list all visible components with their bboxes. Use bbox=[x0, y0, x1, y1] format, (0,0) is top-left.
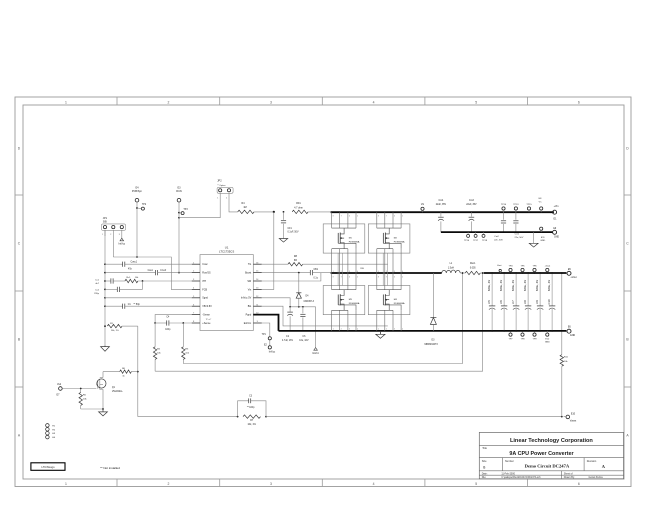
svg-text:5: 5 bbox=[193, 296, 194, 298]
svg-text:11-Feb-2000: 11-Feb-2000 bbox=[501, 473, 515, 476]
svg-text:+Vout: +Vout bbox=[544, 265, 550, 268]
svg-text:4: 4 bbox=[193, 288, 194, 290]
svg-text:15: 15 bbox=[256, 271, 258, 273]
svg-text:820u, 4V: 820u, 4V bbox=[499, 280, 503, 291]
capacitor Cin4 22uF 35V bbox=[436, 200, 447, 232]
svg-text:16: 16 bbox=[256, 262, 258, 264]
svg-text:6R: 6R bbox=[294, 259, 297, 262]
svg-text:C6: C6 bbox=[499, 300, 503, 304]
terminal E10 Vosns bbox=[564, 413, 577, 423]
wire sgnd bus bbox=[104, 230, 106, 345]
resistor RF1 4.7 ohm bbox=[292, 202, 308, 213]
svg-text:9A CPU Power Converter: 9A CPU Power Converter bbox=[509, 451, 574, 457]
test point TP4 output bbox=[508, 266, 513, 274]
svg-text:RF1: RF1 bbox=[296, 202, 301, 205]
svg-text:Revision: Revision bbox=[587, 460, 597, 463]
svg-text:TP1: TP1 bbox=[262, 334, 267, 336]
resistor R2 10k bbox=[153, 323, 161, 371]
svg-text:Cosc1: Cosc1 bbox=[131, 262, 138, 264]
resistor Rsn1 0.005 bbox=[465, 263, 480, 275]
svg-text:1: 1 bbox=[378, 271, 379, 273]
ground sgnd bus bbox=[101, 346, 110, 352]
wire JP2 pin2 to R4 bbox=[229, 193, 238, 212]
svg-text:7: 7 bbox=[386, 216, 387, 218]
test point TP1 bbox=[262, 334, 272, 340]
wire Vout rail thick bbox=[484, 272, 567, 274]
resistor R1 10k 1% bbox=[107, 323, 138, 332]
svg-text:FCB: FCB bbox=[202, 288, 207, 291]
terminal E7 Vsd bbox=[57, 383, 63, 397]
svg-text:IntVcc: IntVcc bbox=[312, 352, 319, 355]
svg-text:22n, 50V: 22n, 50V bbox=[515, 237, 524, 239]
svg-text:** 100p: ** 100p bbox=[247, 407, 255, 409]
test point TP2 bbox=[137, 204, 147, 210]
wire Vin rail thick bbox=[331, 211, 554, 213]
svg-text:Cin2: Cin2 bbox=[494, 236, 499, 238]
svg-text:C5: C5 bbox=[487, 300, 491, 304]
ground Q1 bbox=[99, 409, 108, 416]
ground PGND rail bbox=[376, 331, 385, 338]
note: not installed bbox=[100, 466, 120, 470]
svg-text:Vosns: Vosns bbox=[570, 419, 577, 422]
svg-text:22uF, 35V: 22uF, 35V bbox=[436, 204, 447, 206]
svg-text:IntVcc: IntVcc bbox=[118, 243, 125, 246]
svg-text:FDS6680A: FDS6680A bbox=[349, 241, 360, 244]
resistor R8 6R TG gate bbox=[262, 255, 388, 266]
wire JP2 pin1 to RUN net bbox=[179, 193, 220, 217]
capacitor C8 820u 4V bbox=[523, 272, 531, 332]
capacitor C3 100p bbox=[238, 395, 266, 416]
svg-text:LTC/NLogo: LTC/NLogo bbox=[41, 465, 55, 469]
transistor M2 FDS6680A bbox=[368, 212, 410, 273]
svg-text:IntVcc 5V: IntVcc 5V bbox=[241, 297, 252, 300]
svg-text:Rsn1: Rsn1 bbox=[470, 263, 476, 265]
wire JP1 pin2 to FCB net bbox=[112, 230, 114, 257]
svg-text:TP at T: TP at T bbox=[206, 318, 213, 321]
capacitor CB1 0.1u boost bbox=[262, 269, 331, 279]
labels TP16 TP17 TP18 bbox=[464, 240, 488, 242]
svg-text:Goran Perica: Goran Perica bbox=[589, 476, 604, 479]
capacitor C10 820u 4V bbox=[547, 272, 555, 332]
capacitor C4 100p bbox=[155, 316, 192, 331]
svg-text:TP17: TP17 bbox=[473, 240, 479, 242]
svg-text:0.005: 0.005 bbox=[470, 267, 476, 269]
wire input gnd rail thick bbox=[441, 231, 553, 233]
test point TP9 gnd bbox=[532, 330, 537, 341]
svg-text:3: 3 bbox=[193, 279, 194, 281]
wire feedback line bbox=[138, 416, 563, 418]
terminal E1 +Vin bbox=[553, 205, 559, 220]
svg-text:220p: 220p bbox=[94, 293, 100, 295]
svg-text:6: 6 bbox=[193, 304, 194, 306]
inductor L1 1.5uH bbox=[442, 263, 461, 273]
svg-text:Cin4: Cin4 bbox=[439, 200, 444, 202]
svg-text:TP16: TP16 bbox=[464, 240, 470, 242]
resistor R7 10k 1% bbox=[243, 415, 261, 426]
wire Rsn1 to Vout rail bbox=[480, 272, 483, 274]
svg-text:6: 6 bbox=[578, 100, 580, 104]
wire E3 down to Run/SS bbox=[178, 202, 180, 273]
svg-text:S/B: S/B bbox=[103, 220, 107, 223]
svg-text:2: 2 bbox=[168, 482, 170, 486]
capacitor Cc1 4n7 bbox=[95, 278, 125, 285]
svg-text:RUN: RUN bbox=[176, 190, 182, 193]
svg-text:3: 3 bbox=[270, 100, 272, 104]
svg-text:5: 5 bbox=[475, 482, 477, 486]
svg-text:B: B bbox=[483, 465, 485, 469]
svg-text:JP2: JP2 bbox=[217, 179, 222, 182]
svg-text:12: 12 bbox=[256, 296, 258, 298]
svg-text:Sheet of: Sheet of bbox=[564, 473, 573, 476]
svg-text:4.7 ohm: 4.7 ohm bbox=[294, 206, 303, 209]
terminal E12 GND bbox=[545, 331, 550, 344]
capacitor C6 820u 4V bbox=[499, 272, 507, 332]
svg-text:GND: GND bbox=[540, 240, 545, 242]
border frame bbox=[15, 97, 631, 487]
svg-text:8: 8 bbox=[378, 276, 379, 278]
svg-text:Cosc: Cosc bbox=[202, 263, 208, 266]
capacitor Cosc1 47p bbox=[105, 262, 192, 271]
terminal E5 +Vout bbox=[566, 268, 577, 279]
resistor R11 10k bbox=[560, 274, 569, 417]
svg-text:MBRS340T3: MBRS340T3 bbox=[425, 344, 439, 346]
svg-text:IntVcc: IntVcc bbox=[269, 351, 276, 354]
svg-text:** Not installed: ** Not installed bbox=[100, 466, 120, 470]
svg-text:1: 1 bbox=[217, 198, 218, 200]
svg-text:820u, 4V: 820u, 4V bbox=[535, 280, 539, 291]
wire IntVcc node bbox=[262, 298, 316, 308]
wire +Sense row pin7 bbox=[154, 315, 191, 324]
svg-text:6: 6 bbox=[578, 482, 580, 486]
node SW label bbox=[360, 268, 364, 270]
svg-text:+Vout: +Vout bbox=[570, 276, 577, 279]
svg-text:Drawn By:: Drawn By: bbox=[564, 476, 575, 479]
svg-text:10k, 1%: 10k, 1% bbox=[111, 330, 119, 332]
wire RF1 to Vin rail bbox=[308, 211, 331, 213]
terminal E3 RUN bbox=[176, 186, 182, 202]
wire ExtVcc to test points bbox=[262, 323, 270, 346]
wire Pgnd thick bbox=[253, 315, 278, 331]
svg-text:2: 2 bbox=[193, 271, 194, 273]
test point TP7 gnd bbox=[508, 330, 513, 341]
svg-text:CB1: CB1 bbox=[314, 269, 319, 271]
svg-text:FDS6680A: FDS6680A bbox=[394, 302, 405, 305]
svg-text:File:: File: bbox=[482, 476, 487, 479]
svg-text:9: 9 bbox=[257, 321, 258, 323]
svg-text:1: 1 bbox=[65, 482, 67, 486]
svg-text:GND: GND bbox=[545, 342, 550, 344]
svg-text:C:\padspwr\files\DC247A\DC247A: C:\padspwr\files\DC247A\DC247A.sch bbox=[501, 476, 541, 479]
capacitor Cin3 22uF 35V bbox=[466, 200, 477, 232]
svg-text:Vout: Vout bbox=[497, 264, 502, 267]
svg-text:CMDSH-3: CMDSH-3 bbox=[304, 301, 315, 303]
capacitor C1 50p bbox=[105, 304, 192, 309]
svg-text:11: 11 bbox=[256, 304, 258, 306]
svg-text:1M: 1M bbox=[243, 206, 246, 209]
svg-text:820u, 4V: 820u, 4V bbox=[511, 280, 515, 291]
svg-text:TP18: TP18 bbox=[482, 240, 488, 242]
svg-text:0.1u: 0.1u bbox=[314, 277, 319, 279]
svg-text:BG: BG bbox=[248, 305, 252, 308]
transistor Q1 VN2222 bbox=[96, 372, 123, 393]
svg-text:4: 4 bbox=[373, 100, 375, 104]
svg-text:820u, 4V: 820u, 4V bbox=[547, 280, 551, 291]
resistor R5 10k bbox=[79, 389, 87, 410]
ground CF1 bbox=[279, 239, 287, 243]
svg-text:8: 8 bbox=[193, 321, 194, 323]
wire E4 down bbox=[136, 202, 138, 258]
svg-text:10u, 16V: 10u, 16V bbox=[299, 340, 309, 342]
capacitor CF1 0.1uF 50V bbox=[281, 212, 299, 239]
wire Vin pin13 riser bbox=[262, 212, 274, 290]
svg-text:Css1: Css1 bbox=[148, 270, 154, 272]
svg-text:FDS6680A: FDS6680A bbox=[349, 302, 360, 305]
test point TP5 output bbox=[520, 266, 525, 274]
svg-text:10k, 1%: 10k, 1% bbox=[248, 424, 256, 426]
wire Sgnd row bbox=[105, 297, 192, 299]
svg-text:+Vin: +Vin bbox=[554, 205, 559, 208]
capacitor C9 820u 4V bbox=[535, 272, 543, 332]
capacitor C2 4.7uF 16V bbox=[282, 307, 293, 342]
terminal E11 GND bbox=[540, 227, 546, 242]
test point TP17 bbox=[474, 232, 477, 237]
svg-text:VB=0.8V: VB=0.8V bbox=[202, 305, 212, 308]
test point TP18 bbox=[482, 232, 485, 237]
svg-text:820u, 4V: 820u, 4V bbox=[523, 280, 527, 291]
terminal E4 PCB/Syn bbox=[132, 186, 143, 202]
svg-text:ITH: ITH bbox=[202, 280, 206, 283]
svg-text:5: 5 bbox=[475, 100, 477, 104]
svg-text:4: 4 bbox=[402, 271, 403, 273]
wire feedback vertical bbox=[137, 326, 139, 417]
svg-text:-Sense: -Sense bbox=[202, 314, 210, 317]
mounting holes H1-H4 bbox=[46, 424, 56, 439]
svg-text:1: 1 bbox=[102, 234, 103, 236]
jumper JP1 S/B bbox=[101, 217, 125, 236]
svg-text:4.7uF, 16V: 4.7uF, 16V bbox=[282, 340, 293, 342]
power flag IntVcc at JP1 pin3 bbox=[118, 230, 125, 245]
terminal E6 GND output bbox=[566, 326, 575, 338]
svg-text:1.5uH: 1.5uH bbox=[448, 267, 454, 269]
test point Vout small bbox=[497, 264, 502, 273]
svg-text:Demo Circuit DC247A: Demo Circuit DC247A bbox=[525, 464, 570, 469]
wire L1 to Rsn1 bbox=[460, 272, 465, 274]
capacitor C5 820u 4V bbox=[487, 272, 495, 332]
svg-text:TP15: TP15 bbox=[526, 204, 532, 206]
svg-text:2: 2 bbox=[386, 329, 387, 331]
transistor M3 FDS6680A bbox=[323, 273, 365, 331]
svg-text:Linear Technology Corporation: Linear Technology Corporation bbox=[510, 438, 593, 444]
svg-text:C9: C9 bbox=[535, 300, 539, 304]
svg-text:2: 2 bbox=[168, 100, 170, 104]
LTC logo box bbox=[31, 463, 65, 471]
svg-text:Cin3: Cin3 bbox=[469, 200, 474, 202]
terminal E2 IntVcc bbox=[264, 345, 276, 354]
svg-text:22n, 50V: 22n, 50V bbox=[494, 240, 503, 242]
test point TP16 bbox=[467, 232, 470, 237]
capacitor C6 10u 16V bbox=[299, 307, 309, 342]
op-amp controller U1 LTC1735CS bbox=[192, 246, 262, 331]
svg-text:Boost: Boost bbox=[245, 272, 251, 275]
resistor R3 10k bbox=[182, 323, 190, 364]
svg-text:** 50p: ** 50p bbox=[134, 304, 141, 306]
svg-text:VN2222LL: VN2222LL bbox=[112, 391, 124, 393]
svg-text:Cin1: Cin1 bbox=[515, 234, 520, 236]
svg-text:CF1: CF1 bbox=[288, 228, 293, 230]
svg-text:3: 3 bbox=[119, 234, 120, 236]
test point Vin bbox=[421, 204, 425, 212]
wire FCB net vertical bbox=[113, 257, 191, 289]
jumper JP2 bbox=[217, 179, 233, 199]
svg-text:7: 7 bbox=[386, 276, 387, 278]
svg-text:ExtVcc: ExtVcc bbox=[244, 322, 252, 325]
svg-text:4: 4 bbox=[373, 482, 375, 486]
test point TP6 output bbox=[532, 266, 537, 274]
svg-text:+Sense: +Sense bbox=[202, 322, 211, 325]
svg-text:Sgnd: Sgnd bbox=[202, 297, 208, 300]
svg-text:GND: GND bbox=[554, 237, 559, 239]
svg-text:820u, 4V: 820u, 4V bbox=[487, 280, 491, 291]
test point TP13 bbox=[513, 204, 519, 212]
terminal E8 bbox=[539, 198, 543, 212]
wire PGND rail thick bbox=[279, 330, 567, 332]
wire JP1 pin1 to bus bbox=[104, 230, 106, 236]
svg-text:3: 3 bbox=[270, 482, 272, 486]
test point TP14 bbox=[501, 204, 507, 212]
svg-text:Pgnd: Pgnd bbox=[246, 314, 252, 317]
svg-text:22uF, 35V: 22uF, 35V bbox=[466, 204, 477, 206]
svg-text:5: 5 bbox=[402, 276, 403, 278]
terminal E9 GND bbox=[553, 228, 560, 239]
wire SW rail thick bbox=[331, 272, 442, 274]
capacitor Cin1 22n 50V bbox=[513, 212, 524, 239]
svg-text:2: 2 bbox=[386, 271, 387, 273]
resistor R6 1k bbox=[103, 368, 138, 377]
svg-text:1: 1 bbox=[65, 100, 67, 104]
svg-text:8: 8 bbox=[378, 216, 379, 218]
svg-text:C7: C7 bbox=[511, 300, 515, 304]
transistor M1 FDS6680A bbox=[323, 212, 365, 273]
title block bbox=[479, 432, 623, 479]
svg-text:Title: Title bbox=[482, 446, 487, 450]
svg-text:TG: TG bbox=[248, 263, 251, 266]
wire BG gate bbox=[262, 306, 388, 326]
svg-text:0.1uF, 50V: 0.1uF, 50V bbox=[288, 232, 299, 234]
test point TP3 bbox=[179, 209, 188, 215]
transistor M4 FDS6680A bbox=[368, 273, 410, 331]
test point TP8 gnd bbox=[520, 330, 525, 341]
svg-text:TP14: TP14 bbox=[501, 204, 507, 206]
svg-text:GND: GND bbox=[570, 334, 576, 337]
ground input rail bbox=[529, 232, 538, 247]
svg-text:E10: E10 bbox=[571, 413, 576, 416]
svg-text:1: 1 bbox=[193, 262, 194, 264]
svg-text:FDS6680A: FDS6680A bbox=[394, 241, 405, 244]
test point TP15 bbox=[526, 204, 532, 212]
wire sense A bbox=[183, 273, 462, 364]
svg-text:C10: C10 bbox=[547, 299, 551, 304]
capacitor Cc2 220p bbox=[94, 281, 142, 295]
capacitor C7 820u 4V bbox=[511, 272, 519, 332]
svg-text:5: 5 bbox=[402, 216, 403, 218]
svg-text:Number: Number bbox=[505, 460, 514, 463]
wire E7 to Q1 gate bbox=[62, 388, 96, 390]
svg-text:** Option: ** Option bbox=[217, 184, 225, 187]
svg-text:TP2: TP2 bbox=[142, 204, 147, 206]
svg-text:4: 4 bbox=[402, 329, 403, 331]
wire gate columns bbox=[338, 253, 388, 285]
svg-text:1: 1 bbox=[378, 329, 379, 331]
wire R4 to Vin filter node bbox=[254, 211, 284, 213]
svg-text:Run/SS: Run/SS bbox=[202, 272, 211, 275]
svg-text:14: 14 bbox=[256, 279, 258, 281]
capacitor Css1 0.1uF bbox=[105, 270, 192, 275]
svg-text:TP13: TP13 bbox=[513, 204, 519, 206]
svg-text:7: 7 bbox=[193, 313, 194, 315]
svg-text:TP3: TP3 bbox=[183, 209, 188, 211]
power flag IntVcc node bbox=[312, 307, 319, 355]
capacitor Cin2 22n 50V bbox=[494, 212, 506, 241]
resistor Rc1 10k bbox=[125, 277, 192, 283]
wire sense B bbox=[155, 273, 483, 371]
diode D3 MBRS340T3 bbox=[425, 273, 439, 346]
svg-text:PCB/Syn: PCB/Syn bbox=[132, 190, 143, 193]
resistor R4 1M bbox=[238, 202, 254, 214]
svg-text:Size: Size bbox=[482, 460, 487, 463]
svg-text:2: 2 bbox=[110, 234, 111, 236]
diode D4 CMDSH-3 bbox=[296, 273, 314, 307]
svg-text:Date:: Date: bbox=[482, 473, 488, 476]
svg-text:100p: 100p bbox=[165, 329, 171, 331]
wire Q1 source to ground bbox=[81, 392, 104, 410]
svg-text:0.1uF: 0.1uF bbox=[160, 270, 166, 272]
svg-text:LTC1735CS: LTC1735CS bbox=[219, 250, 234, 254]
wire SW pin to rail bbox=[262, 273, 321, 281]
svg-text:C8: C8 bbox=[523, 300, 527, 304]
test point +Vout output bbox=[544, 265, 550, 274]
svg-text:Vsd: Vsd bbox=[57, 383, 62, 386]
svg-text:2: 2 bbox=[226, 198, 227, 200]
svg-text:13: 13 bbox=[256, 288, 258, 290]
